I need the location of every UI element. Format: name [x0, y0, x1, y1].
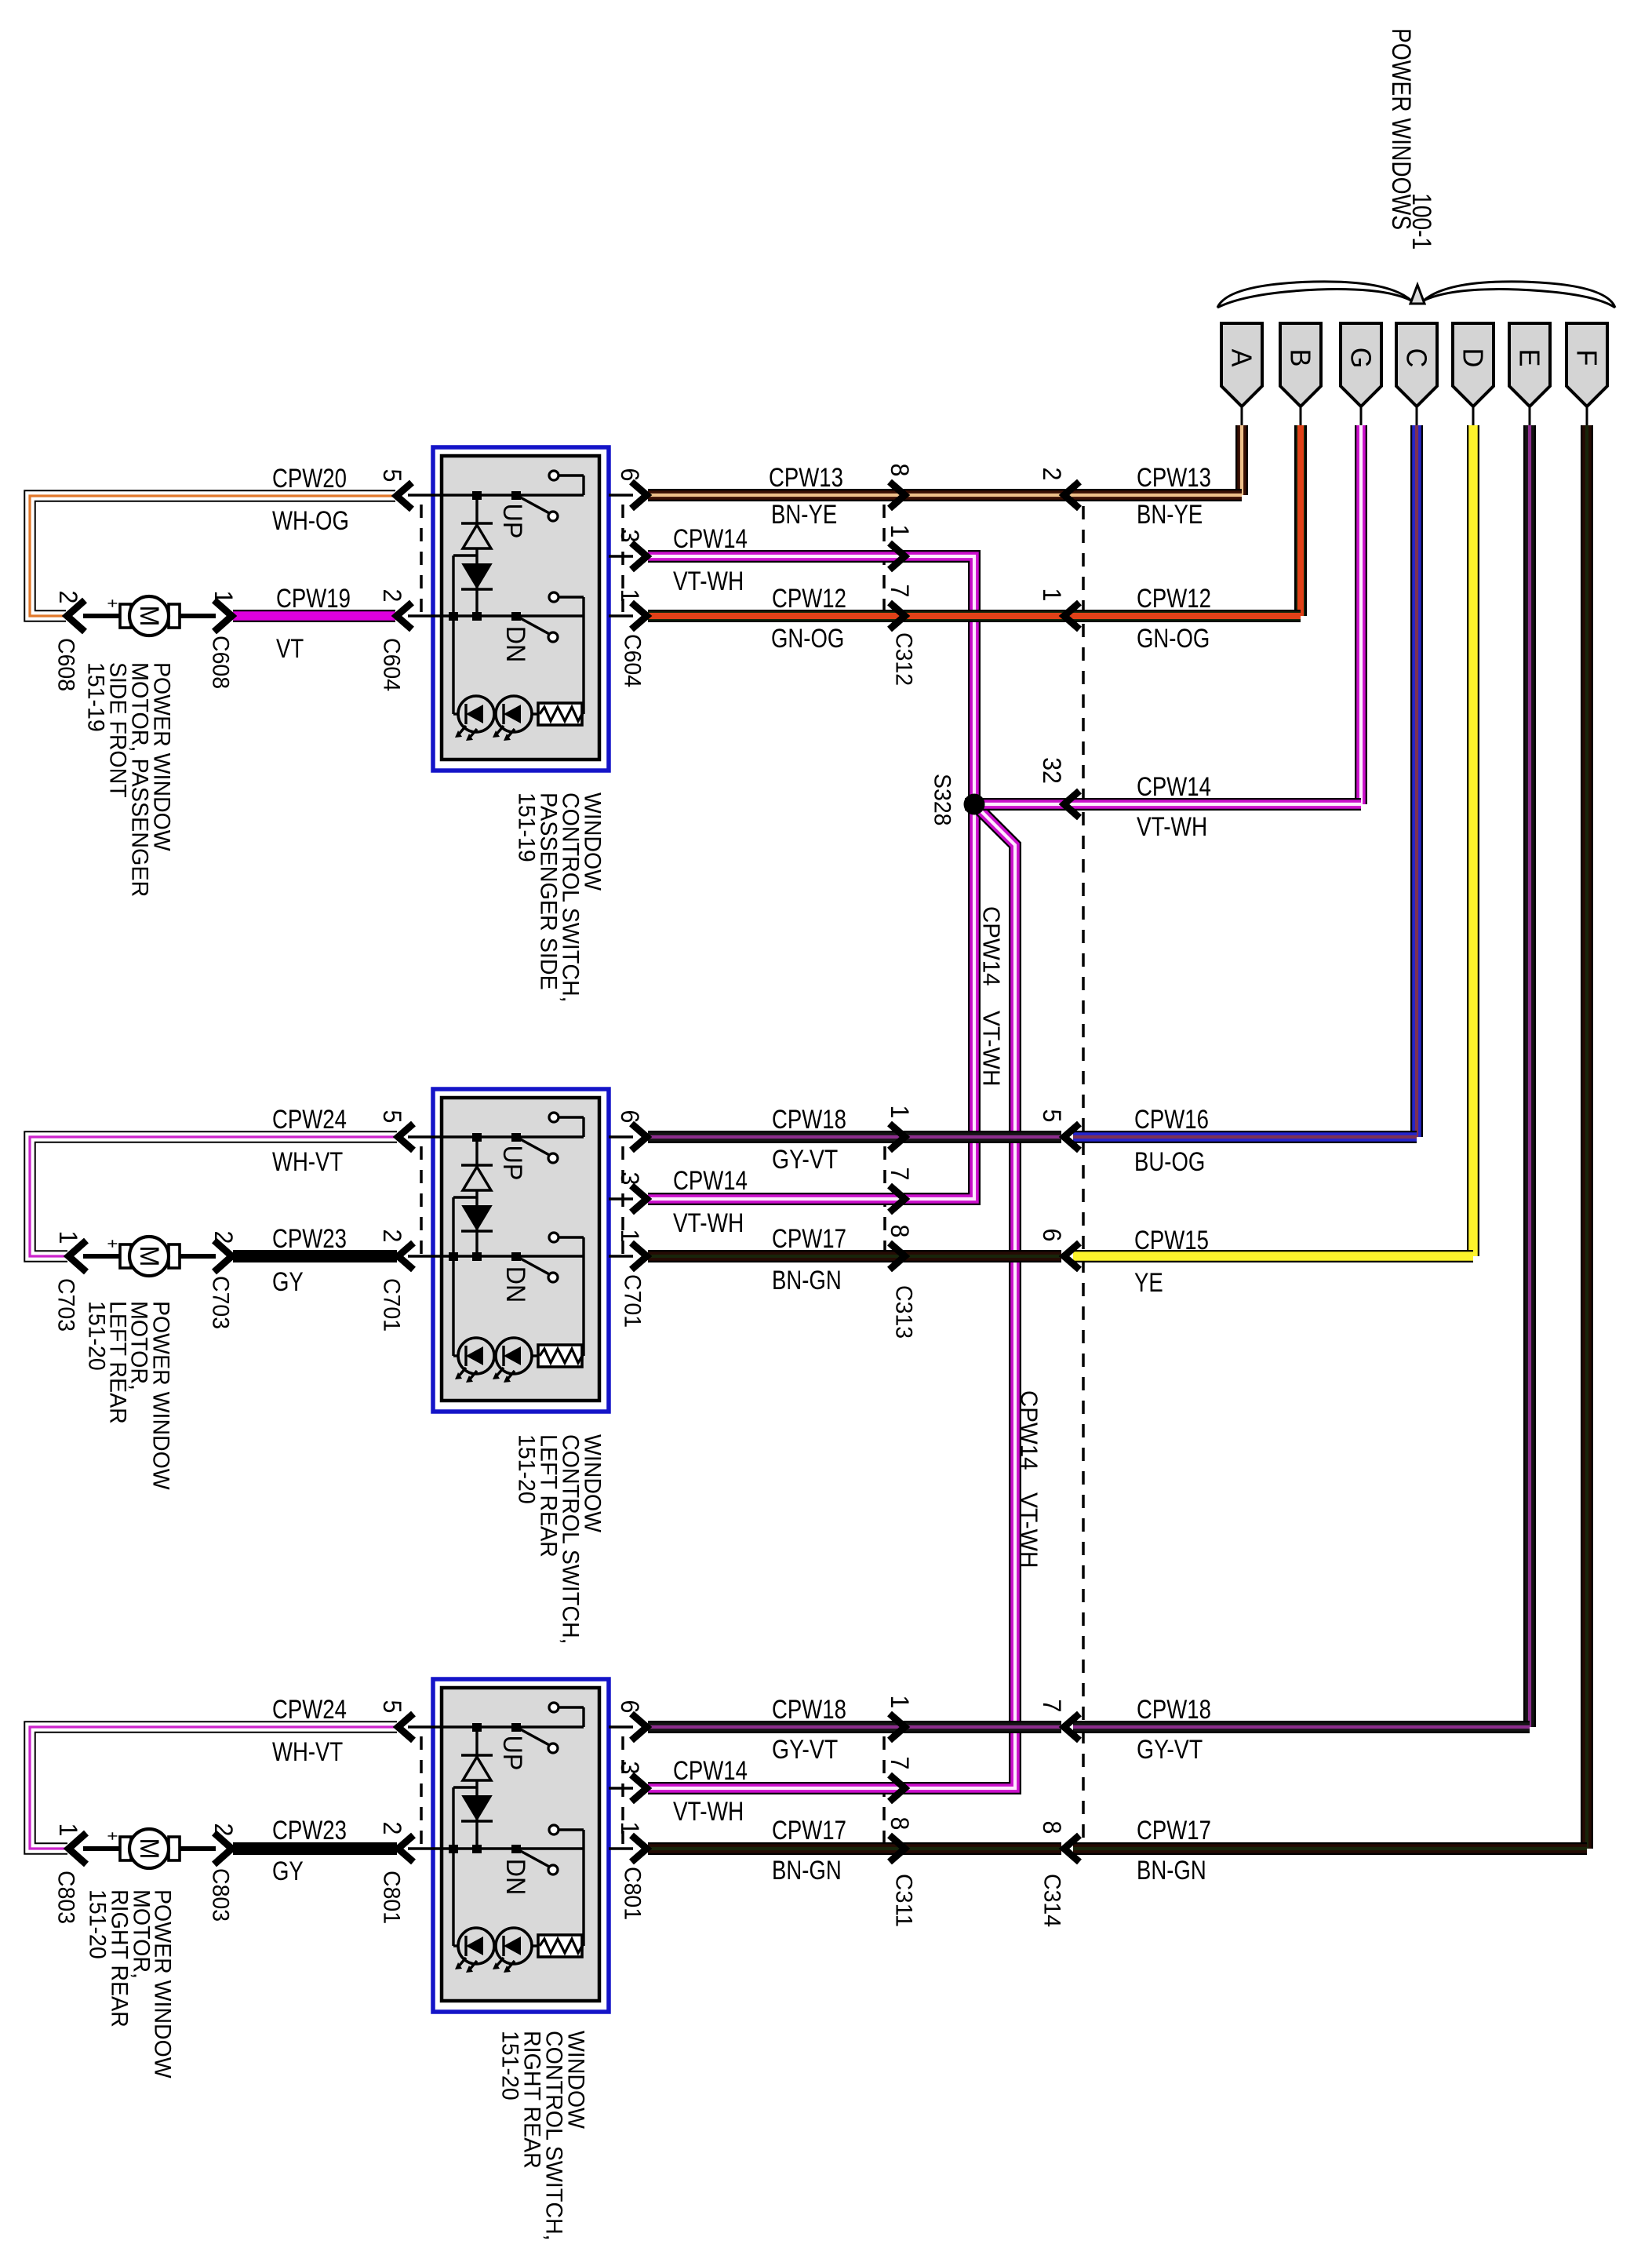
svg-text:CPW14: CPW14	[673, 1756, 748, 1786]
svg-text:151-20: 151-20	[85, 1889, 111, 1959]
wire CPW14 VT-WH column from tag G	[1355, 425, 1367, 804]
connector arrow C314 pin7	[1064, 1714, 1080, 1740]
connector arrow C312 pin7	[890, 603, 905, 629]
svg-text:CPW17: CPW17	[772, 1816, 846, 1845]
svg-text:CPW14: CPW14	[673, 524, 748, 554]
svg-text:CPW23: CPW23	[272, 1224, 347, 1254]
svg-text:BN-YE: BN-YE	[1137, 500, 1203, 530]
svg-text:BN-YE: BN-YE	[771, 500, 837, 530]
svg-text:8: 8	[886, 464, 914, 477]
svg-text:CPW19: CPW19	[276, 584, 351, 614]
wire CPW18 GY-VT (switch3 pin6 to C314)	[648, 1721, 1061, 1733]
svg-text:DN: DN	[500, 1859, 530, 1896]
svg-text:C: C	[1401, 348, 1433, 368]
svg-text:C314: C314	[1039, 1874, 1065, 1927]
svg-text:GN-OG: GN-OG	[1137, 624, 1210, 654]
svg-text:UP: UP	[497, 504, 527, 539]
connector arrow C311 pin8	[890, 1835, 905, 1862]
svg-text:CPW12: CPW12	[1137, 584, 1211, 614]
wire CPW17 BN-GN column from tag F	[1581, 425, 1593, 1849]
svg-text:VT-WH: VT-WH	[1016, 1492, 1043, 1568]
connector arrow C313 pin8	[890, 1243, 905, 1270]
connector C801 dashed line (left of switch 3)	[420, 1736, 423, 1849]
svg-text:6: 6	[616, 468, 644, 482]
connector C604 dashed line (right of switch 1)	[621, 505, 624, 616]
wire CPW24 WH-VT (switch3 pin5 to motor3 pin1)	[30, 1727, 397, 1849]
svg-text:BN-GN: BN-GN	[772, 1266, 842, 1295]
svg-text:C803: C803	[53, 1871, 79, 1924]
svg-text:C608: C608	[53, 638, 79, 691]
svg-text:3: 3	[616, 530, 644, 543]
svg-text:CPW24: CPW24	[272, 1695, 347, 1725]
connector tag E	[1509, 323, 1550, 406]
svg-text:C701: C701	[620, 1274, 646, 1328]
svg-text:5: 5	[378, 1110, 406, 1124]
svg-text:32: 32	[1038, 757, 1066, 784]
svg-text:GY: GY	[272, 1856, 304, 1886]
svg-text:DN: DN	[500, 626, 530, 663]
wire CPW16 BU-OG (C314 to tag C)	[1073, 1131, 1417, 1143]
wire CPW14 VT-WH splice diagonal and drop to switch3 pin3	[648, 807, 1015, 1788]
connector tag B	[1280, 323, 1321, 406]
svg-text:WH-OG: WH-OG	[272, 506, 349, 536]
connector arrow C314 pin6	[1064, 1243, 1080, 1270]
connector arrow C801 pin2	[398, 1835, 414, 1862]
wire CPW12 GN-OG column from tag B	[1294, 425, 1307, 616]
connector tag D	[1453, 323, 1494, 406]
connector tag A	[1221, 323, 1262, 406]
connector arrow C701 pin1	[631, 1243, 647, 1270]
svg-text:C608: C608	[208, 636, 234, 689]
svg-text:GY-VT: GY-VT	[772, 1735, 838, 1765]
connector arrow C313 pin7	[890, 1186, 905, 1212]
svg-text:M: M	[134, 1838, 164, 1860]
connector arrow C311 pin1	[890, 1714, 905, 1740]
svg-text:CPW14: CPW14	[673, 1166, 748, 1196]
wire CPW18 GY-VT (switch2 pin6 to C314)	[648, 1131, 1061, 1143]
svg-text:UP: UP	[497, 1736, 527, 1771]
connector arrow C701 pin2	[398, 1243, 414, 1270]
svg-text:CPW18: CPW18	[772, 1105, 846, 1135]
wire CPW18 GY-VT (C314 to tag E)	[1073, 1721, 1530, 1733]
svg-text:CPW18: CPW18	[1137, 1695, 1211, 1725]
connector arrow C604 pin1	[631, 603, 647, 629]
svg-text:2: 2	[378, 589, 406, 603]
connector arrow C801 pin1	[631, 1835, 647, 1862]
svg-text:CPW20: CPW20	[272, 464, 347, 494]
connector arrow C608 pin2	[67, 600, 86, 632]
connector arrow C311 pin7	[890, 1775, 905, 1802]
connector tag G	[1341, 323, 1381, 406]
connector arrow C608 pin1	[214, 600, 232, 632]
connector arrow C313 pin1	[890, 1124, 905, 1150]
wire CPW19 VT (motor1 pin1 to switch1 pin2)	[233, 610, 395, 622]
connector arrow C803 pin1	[69, 1833, 87, 1864]
link wire pin3 switch 1	[609, 555, 633, 557]
svg-text:+: +	[102, 1239, 123, 1248]
svg-text:7: 7	[886, 1757, 914, 1770]
connector arrow C314 pin8	[1064, 1835, 1080, 1862]
svg-text:8: 8	[886, 1817, 914, 1831]
svg-text:6: 6	[616, 1110, 644, 1124]
svg-text:C313: C313	[891, 1285, 917, 1339]
svg-text:BU-OG: BU-OG	[1134, 1147, 1205, 1177]
wire CPW15 YE (C314 to tag D)	[1073, 1250, 1473, 1262]
svg-text:CPW18: CPW18	[772, 1695, 846, 1725]
wire CPW14 VT-WH (S328 to tag G)	[965, 798, 1361, 811]
svg-text:1: 1	[886, 525, 914, 538]
svg-text:2: 2	[209, 1824, 238, 1837]
wire CPW16 BU-OG column from tag C	[1410, 425, 1423, 1137]
svg-text:1: 1	[886, 1696, 914, 1709]
wire CPW20 WH-OG (switch1 pin5 to motor1 pin2)	[30, 496, 395, 616]
svg-text:7: 7	[886, 585, 914, 598]
svg-text:5: 5	[1038, 1109, 1066, 1123]
svg-text:151-20: 151-20	[514, 1434, 540, 1504]
svg-text:DN: DN	[500, 1266, 530, 1303]
svg-text:1: 1	[54, 1824, 82, 1837]
svg-text:1: 1	[209, 591, 238, 604]
svg-text:2: 2	[54, 591, 82, 604]
power window motor, passenger side front (M1)	[83, 596, 216, 636]
connector arrow C801 pin6	[631, 1714, 647, 1740]
svg-text:M: M	[134, 1246, 164, 1267]
svg-text:CPW16: CPW16	[1134, 1105, 1209, 1135]
svg-text:1: 1	[616, 589, 644, 603]
wire CPW23 GY (motor2 pin2 to switch2 pin2)	[233, 1250, 397, 1262]
window control switch, passenger side (U1)	[408, 447, 609, 771]
svg-text:VT-WH: VT-WH	[673, 1797, 744, 1827]
connector arrow C801 pin5	[398, 1714, 414, 1740]
connector tag C	[1396, 323, 1437, 406]
wire CPW15 YE column from tag D	[1467, 425, 1479, 1256]
svg-text:CPW13: CPW13	[769, 463, 843, 493]
svg-text:E: E	[1514, 349, 1546, 367]
svg-text:CPW24: CPW24	[272, 1105, 347, 1135]
svg-text:151-19: 151-19	[83, 662, 109, 732]
svg-text:C703: C703	[208, 1276, 234, 1329]
connector arrow C703 pin1	[69, 1241, 87, 1272]
svg-text:5: 5	[378, 1700, 406, 1714]
svg-text:C801: C801	[379, 1871, 405, 1924]
svg-text:M: M	[134, 606, 164, 627]
svg-text:2: 2	[378, 1822, 406, 1835]
wire CPW17 BN-GN (C314 to tag F)	[1073, 1842, 1587, 1855]
connector arrow C314 pin2	[1064, 482, 1080, 508]
svg-text:1: 1	[616, 1822, 644, 1835]
svg-text:VT-WH: VT-WH	[673, 567, 744, 596]
svg-text:C312: C312	[891, 632, 917, 686]
link wire pin6 switch 2	[609, 1135, 633, 1138]
harness brace right half	[1424, 282, 1615, 308]
wire CPW12 GN-OG (switch1 pin1 to tag B)	[648, 610, 1301, 622]
wire CPW23 GY (motor3 pin2 to switch3 pin2)	[233, 1842, 397, 1855]
svg-text:7: 7	[886, 1168, 914, 1181]
svg-text:CPW14: CPW14	[1137, 772, 1211, 802]
svg-text:CPW17: CPW17	[772, 1224, 846, 1254]
svg-text:1: 1	[1038, 588, 1066, 602]
svg-text:GY: GY	[272, 1267, 304, 1297]
svg-text:WH-VT: WH-VT	[272, 1737, 343, 1767]
svg-text:2: 2	[209, 1231, 238, 1244]
svg-text:CPW17: CPW17	[1137, 1816, 1211, 1845]
svg-text:VT-WH: VT-WH	[673, 1208, 744, 1238]
connector C312 dashed line	[882, 505, 886, 616]
connector C701 dashed line (left of switch 2)	[420, 1146, 423, 1256]
svg-text:151-20: 151-20	[497, 2031, 523, 2100]
wire CPW18 GY-VT column from tag E	[1523, 425, 1536, 1727]
svg-text:3: 3	[616, 1762, 644, 1775]
wire CPW14 VT-WH splice vertical (switch1 pin3 to switch2 pin3 via S328)	[648, 556, 974, 1199]
svg-text:151-20: 151-20	[84, 1301, 110, 1371]
connector C801 dashed line (right of switch 3)	[621, 1736, 624, 1849]
link wire pin6 switch 1	[609, 494, 633, 496]
svg-text:1: 1	[886, 1106, 914, 1119]
svg-text:5: 5	[378, 469, 406, 483]
harness brace left half	[1217, 282, 1411, 308]
svg-text:A: A	[1226, 349, 1258, 367]
svg-text:CPW23: CPW23	[272, 1816, 347, 1845]
svg-text:VT-WH: VT-WH	[1137, 812, 1207, 842]
link wire pin6 switch 3	[609, 1725, 633, 1728]
svg-text:C604: C604	[620, 634, 646, 687]
svg-text:C803: C803	[208, 1868, 234, 1922]
svg-text:BN-GN: BN-GN	[772, 1856, 842, 1885]
svg-text:BN-GN: BN-GN	[1137, 1856, 1206, 1885]
svg-text:CPW12: CPW12	[772, 584, 846, 614]
connector arrow C701 pin5	[398, 1124, 414, 1150]
svg-text:2: 2	[1038, 468, 1066, 481]
svg-text:8: 8	[886, 1225, 914, 1238]
svg-text:8: 8	[1038, 1821, 1066, 1834]
power window motor, left rear (M2)	[83, 1237, 216, 1276]
window control switch, right rear (U3)	[408, 1679, 609, 2012]
svg-text:C311: C311	[891, 1874, 917, 1927]
link wire pin1 switch 1	[609, 614, 633, 617]
svg-text:B: B	[1285, 349, 1317, 367]
svg-text:WH-VT: WH-VT	[272, 1147, 343, 1177]
svg-text:CPW13: CPW13	[1137, 463, 1211, 493]
connector arrow C314 pin1	[1064, 603, 1080, 629]
svg-text:100-1: 100-1	[1406, 193, 1436, 250]
svg-text:GY-VT: GY-VT	[1137, 1735, 1203, 1765]
svg-text:VT: VT	[276, 634, 304, 664]
connector tag F	[1566, 323, 1607, 406]
svg-text:C703: C703	[53, 1278, 79, 1332]
svg-text:CPW14: CPW14	[1016, 1390, 1043, 1470]
harness brace center point	[1410, 285, 1425, 304]
connector arrow C803 pin2	[214, 1833, 232, 1864]
connector C311 dashed line	[882, 1736, 886, 1849]
svg-text:7: 7	[1038, 1700, 1066, 1713]
svg-text:2: 2	[378, 1230, 406, 1243]
splice S328	[964, 794, 985, 815]
connector arrow C703 pin2	[214, 1241, 232, 1272]
svg-text:S328: S328	[930, 774, 955, 826]
window control switch, left rear (U2)	[408, 1089, 609, 1412]
svg-text:6: 6	[616, 1700, 644, 1714]
svg-text:C701: C701	[379, 1278, 405, 1332]
svg-text:CPW14: CPW14	[978, 906, 1006, 986]
connector arrow C604 pin2	[397, 603, 413, 629]
svg-text:GY-VT: GY-VT	[772, 1145, 838, 1175]
svg-text:151-19: 151-19	[514, 792, 540, 862]
svg-text:YE: YE	[1134, 1268, 1163, 1298]
connector C313 dashed line	[883, 1146, 886, 1256]
connector arrow C604 pin6	[631, 482, 647, 508]
svg-text:GN-OG: GN-OG	[771, 624, 844, 654]
connector C604 dashed line (left of switch 1)	[420, 505, 423, 616]
svg-text:CPW15: CPW15	[1134, 1226, 1209, 1255]
link wire pin1 switch 3	[609, 1847, 633, 1849]
wire CPW17 BN-GN (switch3 pin1 to C314)	[648, 1842, 1061, 1855]
svg-text:G: G	[1345, 348, 1377, 369]
connector arrow C314 pin5	[1064, 1124, 1080, 1150]
svg-text:+: +	[102, 1831, 123, 1840]
wire CPW17 BN-GN (switch2 pin1 to C314)	[648, 1250, 1061, 1262]
svg-text:1: 1	[616, 1230, 644, 1243]
link wire pin3 switch 3	[609, 1787, 633, 1789]
connector arrow C604 pin5	[397, 483, 413, 509]
connector arrow C604 pin3	[631, 543, 647, 570]
svg-text:UP: UP	[497, 1146, 527, 1181]
link wire pin1 switch 2	[609, 1255, 633, 1257]
power window motor, right rear (M3)	[83, 1829, 216, 1868]
svg-text:C801: C801	[620, 1867, 646, 1920]
svg-text:6: 6	[1038, 1229, 1066, 1242]
connector arrow C312 pin1	[890, 543, 905, 570]
svg-text:C604: C604	[379, 638, 405, 691]
wire CPW24 WH-VT (switch2 pin5 to motor2 pin1)	[30, 1137, 397, 1256]
connector C314 dashed line	[1082, 506, 1085, 1849]
svg-text:VT-WH: VT-WH	[978, 1011, 1006, 1087]
svg-text:3: 3	[616, 1172, 644, 1186]
connector arrow C701 pin6	[631, 1124, 647, 1150]
connector arrow C312 pin8	[890, 482, 905, 508]
connector arrow C801 pin3	[631, 1775, 647, 1802]
svg-text:F: F	[1571, 350, 1603, 366]
wire CPW13 BN-YE (switch1 pin6 to tag A)	[648, 489, 1242, 501]
link wire pin3 switch 2	[609, 1197, 633, 1200]
svg-text:+: +	[102, 599, 123, 607]
connector arrow C701 pin3	[631, 1186, 647, 1212]
svg-text:D: D	[1457, 348, 1490, 368]
connector arrow C314 pin32	[1064, 791, 1080, 818]
connector C701 dashed line (right of switch 2)	[621, 1146, 624, 1256]
wire CPW13 BN-YE column from tag A	[1235, 425, 1248, 495]
svg-text:1: 1	[54, 1231, 82, 1244]
